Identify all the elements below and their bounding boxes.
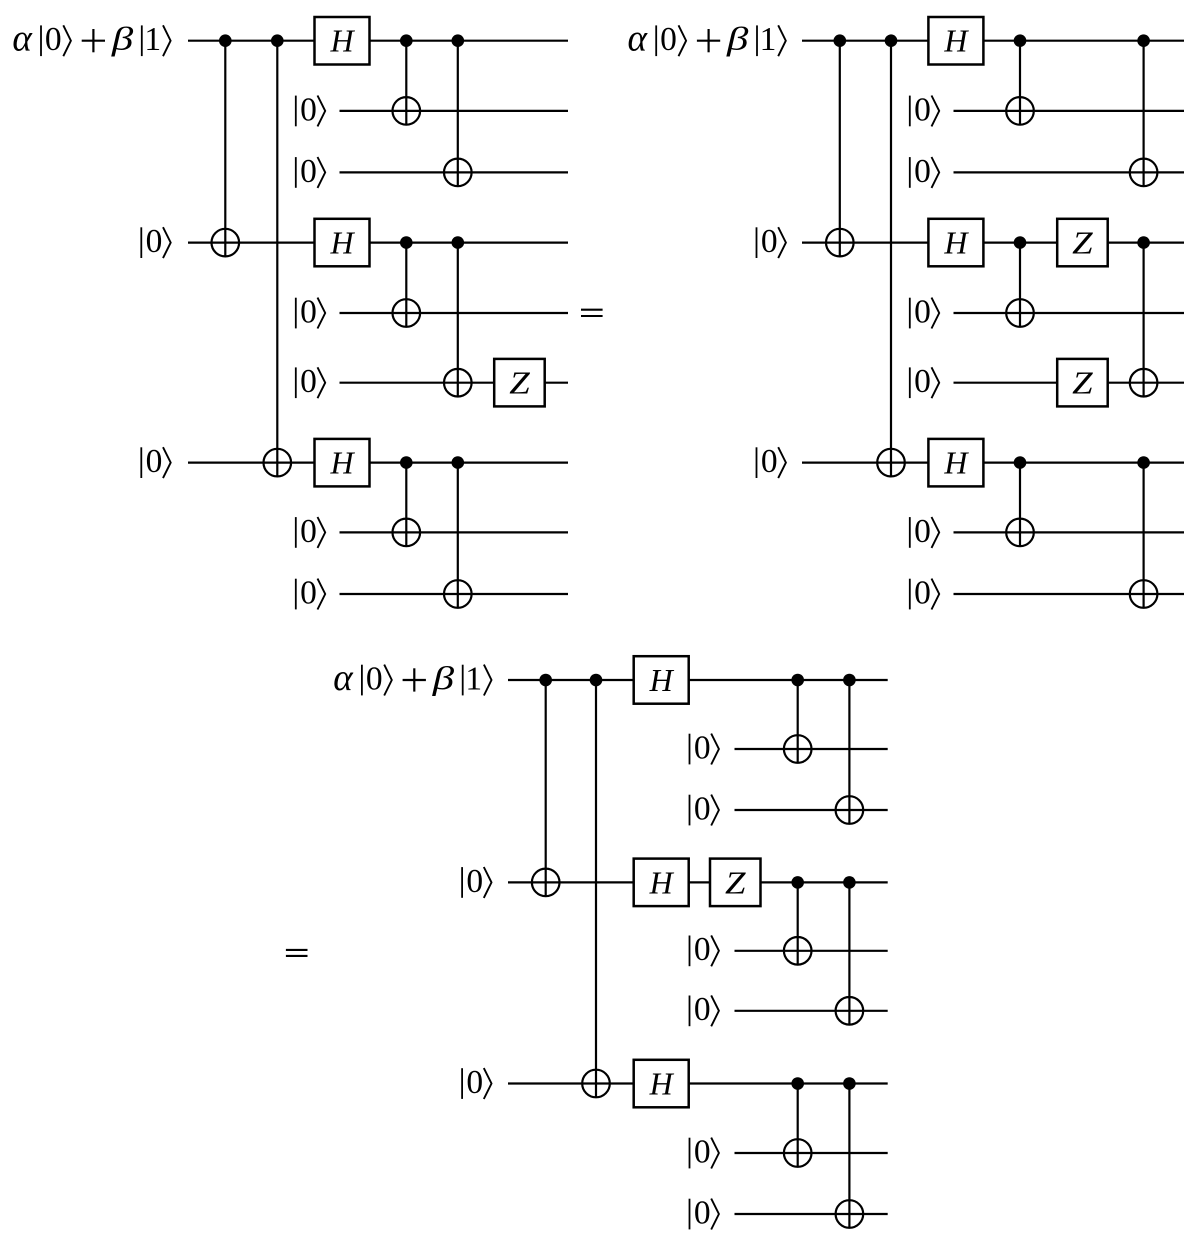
svg-text:0: 0 xyxy=(466,1064,483,1101)
svg-text:H: H xyxy=(943,23,969,59)
CNOT target ⊕ (circuit B, qubit 5) xyxy=(1006,299,1034,327)
svg-text:0: 0 xyxy=(660,21,677,58)
qubit wire (circuit A, qubit 8) xyxy=(340,531,569,533)
svg-text:0: 0 xyxy=(300,574,317,611)
CNOT control dot (circuit A, qubit 7) xyxy=(452,456,465,469)
qubit wire (circuit C, qubit 8) xyxy=(735,1152,888,1154)
CNOT target ⊕ (circuit B, qubit 9) xyxy=(1130,580,1158,608)
qubit wire (circuit A, qubit 7) xyxy=(188,462,568,464)
CNOT control dot (circuit B, qubit 4) xyxy=(1137,236,1150,249)
qubit wire (circuit A, qubit 6) xyxy=(340,382,569,384)
svg-text:0: 0 xyxy=(300,363,317,400)
svg-text:0: 0 xyxy=(300,513,317,550)
CNOT control wire (circuit C, q4→q6) xyxy=(848,882,850,1024)
qubit wire (circuit C, qubit 7) xyxy=(508,1082,888,1084)
svg-text:1: 1 xyxy=(760,21,777,58)
CNOT control wire (circuit C, q1→q7) xyxy=(595,680,597,1097)
CNOT target ⊕ (circuit C, qubit 5) xyxy=(784,937,812,965)
CNOT control wire (circuit B, q4→q6) xyxy=(1142,243,1144,397)
qubit wire (circuit B, qubit 7) xyxy=(802,462,1184,464)
CNOT control dot (circuit C, qubit 4) xyxy=(843,876,856,889)
ket |0⟩ label (circuit B, qubit 6) xyxy=(910,363,939,400)
CNOT control wire (circuit C, q4→q5) xyxy=(797,882,799,964)
qubit wire (circuit B, qubit 8) xyxy=(954,531,1185,533)
CNOT target ⊕ (circuit A, qubit 7) xyxy=(264,449,292,477)
CNOT target ⊕ (circuit C, qubit 4) xyxy=(532,869,560,897)
CNOT control dot (circuit B, qubit 7) xyxy=(1014,456,1027,469)
CNOT control wire (circuit B, q4→q5) xyxy=(1019,243,1021,327)
CNOT control dot (circuit A, qubit 1) xyxy=(452,34,465,47)
qubit wire (circuit B, qubit 5) xyxy=(954,312,1185,314)
svg-text:H: H xyxy=(329,23,355,59)
ket |0⟩ label (circuit A, qubit 5) xyxy=(296,293,325,330)
CNOT target ⊕ (circuit B, qubit 6) xyxy=(1130,369,1158,397)
svg-text:0: 0 xyxy=(146,443,163,480)
CNOT control wire (circuit A, q4→q5) xyxy=(405,243,407,327)
ket |0⟩ label (circuit A, qubit 6) xyxy=(296,363,325,400)
CNOT control dot (circuit C, qubit 1) xyxy=(590,674,603,687)
qubit wire (circuit B, qubit 6) xyxy=(954,382,1185,384)
svg-text:β: β xyxy=(726,22,750,58)
equals sign between circuit A and circuit B xyxy=(581,310,603,316)
Pauli-Z gate (circuit C, qubit 4) xyxy=(710,859,761,907)
svg-text:H: H xyxy=(943,225,969,261)
svg-text:0: 0 xyxy=(694,1133,711,1170)
input-state label α|0⟩+β|1⟩ (circuit A, qubit 1) xyxy=(12,18,170,60)
CNOT control wire (circuit C, q1→q4) xyxy=(545,680,547,896)
svg-text:H: H xyxy=(943,445,969,481)
svg-text:0: 0 xyxy=(761,223,778,260)
Hadamard gate H (circuit C, qubit 4) xyxy=(634,859,689,907)
svg-text:0: 0 xyxy=(300,293,317,330)
CNOT target ⊕ (circuit A, qubit 2) xyxy=(393,97,421,125)
CNOT control wire (circuit B, q1→q3) xyxy=(1142,41,1144,187)
qubit wire (circuit A, qubit 3) xyxy=(340,171,569,173)
CNOT control wire (circuit A, q1→q7) xyxy=(276,41,278,477)
CNOT target ⊕ (circuit C, qubit 8) xyxy=(784,1139,812,1167)
qubit wire (circuit A, qubit 9) xyxy=(340,593,569,595)
ket |0⟩ label (circuit B, qubit 7) xyxy=(757,443,786,480)
CNOT control wire (circuit B, q7→q9) xyxy=(1142,463,1144,608)
svg-text:β: β xyxy=(431,661,455,697)
Hadamard gate H (circuit A, qubit 1) xyxy=(315,17,370,65)
qubit wire (circuit A, qubit 1) xyxy=(188,40,568,42)
qubit wire (circuit C, qubit 6) xyxy=(735,1010,888,1012)
qubit wire (circuit C, qubit 5) xyxy=(735,950,888,952)
CNOT control dot (circuit A, qubit 4) xyxy=(400,236,413,249)
CNOT control dot (circuit B, qubit 4) xyxy=(1014,236,1027,249)
qubit wire (circuit B, qubit 1) xyxy=(802,40,1184,42)
CNOT control wire (circuit B, q1→q4) xyxy=(839,41,841,257)
CNOT target ⊕ (circuit C, qubit 3) xyxy=(836,796,864,824)
svg-text:0: 0 xyxy=(366,660,383,697)
equals sign before circuit C xyxy=(286,950,308,956)
ket |0⟩ label (circuit B, qubit 4) xyxy=(757,223,786,260)
qubit wire (circuit A, qubit 2) xyxy=(340,110,569,112)
CNOT control wire (circuit C, q7→q8) xyxy=(797,1084,799,1167)
svg-text:0: 0 xyxy=(694,1194,711,1231)
svg-text:0: 0 xyxy=(914,574,931,611)
CNOT control wire (circuit A, q1→q4) xyxy=(224,41,226,257)
qubit wire (circuit C, qubit 4) xyxy=(508,881,888,883)
CNOT control dot (circuit C, qubit 1) xyxy=(843,674,856,687)
svg-text:H: H xyxy=(649,1066,675,1102)
svg-text:0: 0 xyxy=(914,91,931,128)
ket |0⟩ label (circuit C, qubit 3) xyxy=(690,790,719,827)
CNOT control dot (circuit C, qubit 1) xyxy=(539,674,552,687)
svg-text:α: α xyxy=(333,657,354,699)
qubit wire (circuit A, qubit 5) xyxy=(340,312,569,314)
CNOT target ⊕ (circuit A, qubit 4) xyxy=(212,229,240,257)
svg-text:0: 0 xyxy=(694,729,711,766)
input-state label α|0⟩+β|1⟩ (circuit C, qubit 1) xyxy=(333,657,491,699)
CNOT target ⊕ (circuit C, qubit 7) xyxy=(582,1070,610,1098)
CNOT control wire (circuit A, q1→q2) xyxy=(405,41,407,125)
CNOT target ⊕ (circuit A, qubit 6) xyxy=(444,369,472,397)
ket |0⟩ label (circuit A, qubit 7) xyxy=(141,443,170,480)
svg-text:H: H xyxy=(329,225,355,261)
CNOT control dot (circuit B, qubit 1) xyxy=(834,34,847,47)
Hadamard gate H (circuit B, qubit 4) xyxy=(928,219,983,266)
CNOT control dot (circuit A, qubit 1) xyxy=(271,34,284,47)
ket |0⟩ label (circuit C, qubit 5) xyxy=(690,931,719,968)
svg-text:Z: Z xyxy=(725,864,747,900)
CNOT control dot (circuit B, qubit 7) xyxy=(1137,456,1150,469)
svg-text:0: 0 xyxy=(914,363,931,400)
CNOT control wire (circuit A, q7→q8) xyxy=(405,463,407,547)
svg-text:0: 0 xyxy=(694,790,711,827)
Hadamard gate H (circuit B, qubit 1) xyxy=(928,17,983,65)
CNOT control dot (circuit B, qubit 1) xyxy=(1014,34,1027,47)
svg-text:Z: Z xyxy=(509,365,531,401)
ket |0⟩ label (circuit A, qubit 8) xyxy=(296,513,325,550)
CNOT target ⊕ (circuit C, qubit 6) xyxy=(836,997,864,1025)
CNOT control dot (circuit A, qubit 1) xyxy=(400,34,413,47)
CNOT target ⊕ (circuit B, qubit 7) xyxy=(877,449,905,477)
svg-text:0: 0 xyxy=(914,293,931,330)
svg-text:0: 0 xyxy=(694,991,711,1028)
CNOT target ⊕ (circuit A, qubit 3) xyxy=(444,159,472,187)
svg-text:1: 1 xyxy=(465,660,482,697)
ket |0⟩ label (circuit A, qubit 9) xyxy=(296,574,325,611)
qubit wire (circuit B, qubit 9) xyxy=(954,593,1185,595)
ket |0⟩ label (circuit C, qubit 7) xyxy=(462,1064,491,1101)
CNOT target ⊕ (circuit B, qubit 2) xyxy=(1006,97,1034,125)
svg-text:0: 0 xyxy=(761,443,778,480)
CNOT control dot (circuit C, qubit 7) xyxy=(843,1077,856,1090)
CNOT target ⊕ (circuit A, qubit 5) xyxy=(393,299,421,327)
CNOT control dot (circuit C, qubit 1) xyxy=(791,674,804,687)
Hadamard gate H (circuit A, qubit 7) xyxy=(315,439,370,487)
qubit wire (circuit C, qubit 9) xyxy=(735,1213,888,1215)
CNOT control wire (circuit B, q1→q2) xyxy=(1019,41,1021,125)
CNOT control wire (circuit C, q7→q9) xyxy=(848,1084,850,1228)
CNOT control wire (circuit B, q1→q7) xyxy=(890,41,892,477)
ket |0⟩ label (circuit A, qubit 4) xyxy=(141,223,170,260)
svg-text:Z: Z xyxy=(1072,365,1094,401)
ket |0⟩ label (circuit B, qubit 5) xyxy=(910,293,939,330)
svg-text:0: 0 xyxy=(146,223,163,260)
CNOT control dot (circuit B, qubit 1) xyxy=(1137,34,1150,47)
ket |0⟩ label (circuit A, qubit 2) xyxy=(296,91,325,128)
CNOT control wire (circuit C, q1→q2) xyxy=(797,680,799,763)
CNOT target ⊕ (circuit B, qubit 3) xyxy=(1130,159,1158,187)
svg-text:Z: Z xyxy=(1072,225,1094,261)
Hadamard gate H (circuit A, qubit 4) xyxy=(315,219,370,266)
qubit wire (circuit B, qubit 4) xyxy=(802,242,1184,244)
qubit wire (circuit B, qubit 3) xyxy=(954,171,1185,173)
CNOT control wire (circuit A, q4→q6) xyxy=(457,243,459,397)
qubit wire (circuit C, qubit 2) xyxy=(735,748,888,750)
ket |0⟩ label (circuit A, qubit 3) xyxy=(296,153,325,190)
input-state label α|0⟩+β|1⟩ (circuit B, qubit 1) xyxy=(628,18,786,60)
CNOT target ⊕ (circuit B, qubit 8) xyxy=(1006,519,1034,547)
CNOT control dot (circuit A, qubit 4) xyxy=(452,236,465,249)
CNOT control dot (circuit C, qubit 4) xyxy=(791,876,804,889)
qubit wire (circuit C, qubit 3) xyxy=(735,809,888,811)
CNOT control dot (circuit A, qubit 1) xyxy=(219,34,232,47)
svg-text:0: 0 xyxy=(914,513,931,550)
ket |0⟩ label (circuit B, qubit 9) xyxy=(910,574,939,611)
ket |0⟩ label (circuit B, qubit 3) xyxy=(910,153,939,190)
Pauli-Z gate (circuit B, qubit 4) xyxy=(1057,219,1108,266)
CNOT target ⊕ (circuit B, qubit 4) xyxy=(826,229,854,257)
ket |0⟩ label (circuit C, qubit 6) xyxy=(690,991,719,1028)
ket |0⟩ label (circuit C, qubit 8) xyxy=(690,1133,719,1170)
svg-text:H: H xyxy=(329,445,355,481)
svg-text:0: 0 xyxy=(694,931,711,968)
CNOT target ⊕ (circuit C, qubit 9) xyxy=(836,1200,864,1228)
svg-text:0: 0 xyxy=(914,153,931,190)
svg-text:0: 0 xyxy=(300,91,317,128)
svg-text:α: α xyxy=(628,18,649,60)
ket |0⟩ label (circuit C, qubit 9) xyxy=(690,1194,719,1231)
svg-text:0: 0 xyxy=(300,153,317,190)
CNOT control dot (circuit B, qubit 1) xyxy=(885,34,898,47)
svg-text:H: H xyxy=(649,864,675,900)
Pauli-Z gate (circuit A, qubit 6) xyxy=(494,359,545,407)
svg-text:β: β xyxy=(111,22,135,58)
Hadamard gate H (circuit B, qubit 7) xyxy=(928,439,983,487)
qubit wire (circuit B, qubit 2) xyxy=(954,110,1185,112)
qubit wire (circuit C, qubit 1) xyxy=(508,679,888,681)
ket |0⟩ label (circuit C, qubit 4) xyxy=(462,863,491,900)
CNOT target ⊕ (circuit A, qubit 9) xyxy=(444,580,472,608)
svg-text:α: α xyxy=(12,18,33,60)
Hadamard gate H (circuit C, qubit 1) xyxy=(634,656,689,704)
svg-text:0: 0 xyxy=(466,863,483,900)
Hadamard gate H (circuit C, qubit 7) xyxy=(634,1060,689,1108)
ket |0⟩ label (circuit B, qubit 2) xyxy=(910,91,939,128)
CNOT control wire (circuit A, q1→q3) xyxy=(457,41,459,187)
CNOT target ⊕ (circuit A, qubit 8) xyxy=(393,519,421,547)
CNOT control dot (circuit C, qubit 7) xyxy=(791,1077,804,1090)
CNOT control wire (circuit A, q7→q9) xyxy=(457,463,459,608)
svg-text:1: 1 xyxy=(144,21,161,58)
ket |0⟩ label (circuit B, qubit 8) xyxy=(910,513,939,550)
ket |0⟩ label (circuit C, qubit 2) xyxy=(690,729,719,766)
svg-text:0: 0 xyxy=(45,21,62,58)
CNOT control wire (circuit C, q1→q3) xyxy=(848,680,850,824)
CNOT control wire (circuit B, q7→q8) xyxy=(1019,463,1021,547)
qubit wire (circuit A, qubit 4) xyxy=(188,242,568,244)
CNOT control dot (circuit A, qubit 7) xyxy=(400,456,413,469)
Pauli-Z gate (circuit B, qubit 6) xyxy=(1057,359,1108,407)
CNOT target ⊕ (circuit C, qubit 2) xyxy=(784,735,812,763)
svg-text:H: H xyxy=(649,662,675,698)
